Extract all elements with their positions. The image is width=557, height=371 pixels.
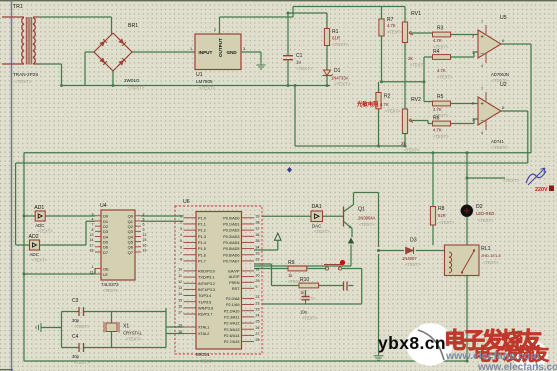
svg-text:AD1: AD1: [34, 205, 44, 211]
svg-text:7: 7: [180, 251, 182, 255]
svg-text:7: 7: [92, 223, 94, 227]
svg-text:11: 11: [90, 271, 94, 275]
svg-text:<TEXT>: <TEXT>: [314, 229, 330, 234]
svg-text:16: 16: [178, 305, 182, 309]
svg-text:27: 27: [256, 332, 260, 336]
svg-text:8: 8: [180, 258, 182, 262]
svg-text:D7: D7: [103, 250, 109, 255]
svg-text:P1.7: P1.7: [198, 260, 206, 264]
svg-text:<TEXT>: <TEXT>: [332, 42, 349, 47]
svg-text:<TEXT>: <TEXT>: [37, 229, 53, 234]
svg-text:3: 3: [472, 118, 474, 122]
svg-text:INT1/P3.3: INT1/P3.3: [198, 288, 215, 292]
svg-text:−: −: [481, 118, 484, 124]
svg-text:15: 15: [143, 238, 147, 242]
svg-text:19: 19: [143, 248, 147, 252]
svg-text:1u: 1u: [296, 60, 301, 65]
svg-text:7: 7: [481, 20, 483, 24]
svg-text:P0.7/AD7: P0.7/AD7: [223, 260, 239, 264]
svg-text:www.elecfans.com: www.elecfans.com: [445, 350, 540, 362]
svg-text:<TEXT>: <TEXT>: [503, 178, 520, 183]
svg-text:P1.1: P1.1: [198, 223, 206, 227]
svg-text:<TEXT>: <TEXT>: [483, 260, 499, 265]
svg-text:P2.6/A14: P2.6/A14: [224, 334, 240, 338]
svg-text:74LS373: 74LS373: [101, 282, 119, 287]
svg-text:P1.4: P1.4: [198, 241, 206, 245]
svg-text:<TEXT>: <TEXT>: [385, 109, 401, 114]
svg-text:36: 36: [256, 233, 260, 237]
svg-text:P2.7/A15: P2.7/A15: [224, 340, 240, 344]
svg-text:P1.0: P1.0: [198, 216, 206, 220]
svg-text:12: 12: [143, 233, 147, 237]
svg-text:<TEXT>: <TEXT>: [74, 324, 90, 329]
svg-text:19: 19: [178, 324, 182, 328]
svg-text:32: 32: [256, 258, 260, 262]
svg-text:22: 22: [256, 301, 260, 305]
svg-text:P0.3/AD3: P0.3/AD3: [223, 235, 239, 239]
svg-text:RV1: RV1: [411, 11, 421, 17]
svg-text:R4: R4: [433, 49, 440, 55]
svg-text:PSEN: PSEN: [229, 281, 240, 285]
svg-text:RL1: RL1: [481, 246, 491, 252]
svg-text:<TEXT>: <TEXT>: [199, 359, 215, 364]
svg-text:RV2: RV2: [411, 97, 421, 103]
svg-text:39: 39: [256, 215, 260, 219]
svg-text:4: 4: [481, 64, 483, 68]
svg-text:<TEXT>: <TEXT>: [103, 288, 119, 293]
svg-text:R5: R5: [437, 94, 444, 100]
svg-text:4: 4: [481, 131, 483, 135]
svg-text:ADC: ADC: [35, 223, 44, 228]
svg-text:38: 38: [256, 221, 260, 225]
svg-text:<TEXT>: <TEXT>: [296, 66, 313, 71]
svg-text:25: 25: [256, 320, 260, 324]
svg-text:TR1: TR1: [13, 4, 23, 10]
svg-text:AD706JN: AD706JN: [491, 72, 509, 77]
svg-text:2: 2: [214, 28, 216, 32]
svg-text:2N3904A: 2N3904A: [358, 216, 376, 221]
svg-text:6: 6: [143, 223, 145, 227]
svg-text:220V: 220V: [535, 187, 548, 193]
svg-text:P2.5/A13: P2.5/A13: [224, 328, 240, 332]
svg-text:<TEXT>: <TEXT>: [439, 220, 455, 225]
svg-text:RST: RST: [232, 287, 240, 291]
svg-text:28: 28: [256, 338, 260, 342]
svg-text:U4: U4: [100, 203, 107, 209]
svg-text:<TEXT>: <TEXT>: [15, 79, 32, 84]
svg-text:<TEXT>: <TEXT>: [410, 63, 426, 68]
svg-text:14: 14: [90, 238, 94, 242]
svg-text:C1: C1: [296, 53, 303, 59]
svg-text:3: 3: [92, 212, 94, 216]
svg-text:5: 5: [180, 239, 182, 243]
svg-text:RD/P3.7: RD/P3.7: [198, 313, 212, 317]
svg-text:R3: R3: [437, 26, 444, 32]
svg-text:U6: U6: [183, 199, 190, 205]
svg-text:61R: 61R: [332, 36, 340, 41]
svg-text:WR/P3.6: WR/P3.6: [198, 306, 213, 310]
svg-text:D3: D3: [410, 238, 417, 244]
svg-text:4.7K: 4.7K: [433, 128, 442, 133]
svg-text:3: 3: [180, 227, 182, 231]
svg-text:C4: C4: [72, 334, 79, 340]
svg-text:37: 37: [256, 227, 260, 231]
svg-text:2W01G: 2W01G: [124, 78, 140, 83]
svg-text:17: 17: [90, 243, 94, 247]
svg-text:T1/P3.5: T1/P3.5: [198, 300, 211, 304]
svg-text:9: 9: [256, 285, 258, 289]
svg-text:12: 12: [178, 280, 182, 284]
svg-text:3: 3: [472, 51, 474, 55]
svg-text:INT0/P3.2: INT0/P3.2: [198, 282, 215, 286]
svg-text:<TEXT>: <TEXT>: [126, 337, 142, 342]
svg-text:Q1: Q1: [358, 207, 365, 213]
svg-text:<TEXT>: <TEXT>: [32, 258, 48, 263]
svg-text:D1: D1: [334, 68, 341, 74]
svg-text:18: 18: [178, 330, 182, 334]
svg-text:13: 13: [178, 286, 182, 290]
svg-text:<TEXT>: <TEXT>: [387, 30, 403, 35]
svg-text:R10: R10: [300, 277, 309, 283]
svg-text:R9: R9: [288, 260, 295, 266]
svg-text:4: 4: [180, 233, 182, 237]
svg-text:OUTPUT: OUTPUT: [218, 38, 223, 57]
svg-text:15: 15: [178, 298, 182, 302]
svg-text:5: 5: [143, 217, 145, 221]
svg-text:<TEXT>: <TEXT>: [334, 82, 351, 87]
svg-text:P0.6/AD6: P0.6/AD6: [223, 253, 239, 257]
svg-text:+: +: [481, 35, 484, 41]
svg-text:16: 16: [143, 243, 147, 247]
svg-text:<TEXT>: <TEXT>: [302, 316, 318, 321]
svg-text:U2: U2: [500, 82, 507, 88]
svg-text:P0.5/AD5: P0.5/AD5: [223, 247, 239, 251]
svg-text:4: 4: [92, 217, 94, 221]
svg-text:10u: 10u: [300, 310, 308, 315]
svg-text:ybx8.cn: ybx8.cn: [378, 333, 446, 353]
svg-text:OE: OE: [103, 266, 109, 271]
svg-text:4.7K: 4.7K: [387, 23, 396, 28]
svg-text:1N4733A: 1N4733A: [331, 76, 349, 81]
svg-text:21: 21: [256, 295, 260, 299]
svg-text:EA/VP: EA/VP: [228, 270, 240, 274]
svg-text:2k: 2k: [408, 56, 413, 61]
svg-text:P2.0/A8: P2.0/A8: [226, 297, 240, 301]
svg-text:ADC: ADC: [30, 252, 39, 257]
svg-text:11: 11: [178, 274, 182, 278]
svg-text:XTAL2: XTAL2: [198, 332, 209, 336]
svg-text:TXD/P3.1: TXD/P3.1: [198, 276, 214, 280]
svg-text:<TEXT>: <TEXT>: [128, 85, 145, 90]
svg-text:18: 18: [90, 248, 94, 252]
svg-text:1N4007: 1N4007: [402, 256, 417, 261]
svg-text:1: 1: [190, 47, 192, 51]
svg-text:<TEXT>: <TEXT>: [478, 218, 494, 223]
svg-text:24: 24: [256, 314, 260, 318]
svg-text:<TEXT>: <TEXT>: [437, 75, 453, 80]
svg-text:U1: U1: [196, 72, 203, 78]
svg-text:CRYSTAL: CRYSTAL: [123, 331, 143, 336]
svg-text:30: 30: [256, 273, 260, 277]
svg-text:LED-RED: LED-RED: [476, 211, 494, 216]
svg-text:<TEXT>: <TEXT>: [405, 262, 421, 267]
svg-text:30p: 30p: [72, 354, 80, 359]
svg-text:30p: 30p: [72, 318, 80, 323]
svg-text:2: 2: [472, 102, 474, 106]
svg-text:4.7K: 4.7K: [380, 102, 389, 107]
svg-text:P1.3: P1.3: [198, 235, 206, 239]
svg-text:AD741: AD741: [491, 139, 504, 144]
svg-text:−: −: [481, 51, 484, 57]
svg-text:BR1: BR1: [128, 23, 138, 29]
svg-text:P0.2/AD2: P0.2/AD2: [223, 229, 239, 233]
svg-text:P1.5: P1.5: [198, 247, 206, 251]
svg-text:P1.2: P1.2: [198, 229, 206, 233]
svg-text:1: 1: [180, 215, 182, 219]
svg-text:P2.3/A11: P2.3/A11: [224, 315, 239, 319]
svg-text:C3: C3: [72, 298, 79, 304]
svg-text:LM7805: LM7805: [196, 79, 213, 84]
svg-text:4.7K: 4.7K: [433, 38, 442, 43]
svg-text:31: 31: [256, 268, 260, 272]
svg-text:光敏电阻: 光敏电阻: [356, 100, 379, 108]
svg-text:LE: LE: [103, 272, 108, 277]
svg-text:2: 2: [143, 212, 145, 216]
svg-text:8: 8: [92, 228, 94, 232]
svg-text:+: +: [481, 102, 484, 108]
svg-text:AD2: AD2: [29, 234, 39, 240]
svg-text:<TEXT>: <TEXT>: [433, 134, 449, 139]
svg-text:TRAN-2P2S: TRAN-2P2S: [13, 72, 38, 77]
svg-text:1: 1: [92, 265, 94, 269]
svg-text:XTAL1: XTAL1: [198, 326, 209, 330]
svg-text:P0.4/AD4: P0.4/AD4: [223, 241, 239, 245]
svg-text:DAC: DAC: [312, 224, 321, 229]
svg-text:P2.2/A10: P2.2/A10: [224, 309, 240, 313]
svg-text:6: 6: [502, 39, 504, 43]
svg-text:X1: X1: [123, 324, 129, 330]
svg-text:17: 17: [178, 311, 182, 315]
svg-text:R2: R2: [384, 94, 391, 100]
svg-text:3: 3: [243, 47, 245, 51]
svg-text:6: 6: [180, 245, 182, 249]
svg-text:2: 2: [180, 221, 182, 225]
svg-text:P1.6: P1.6: [198, 253, 206, 257]
svg-text:34: 34: [256, 245, 260, 249]
svg-text:6: 6: [502, 106, 504, 110]
svg-text:26: 26: [256, 326, 260, 330]
svg-text:P2.4/A12: P2.4/A12: [224, 322, 240, 326]
svg-text:D2: D2: [476, 204, 483, 210]
svg-text:29: 29: [256, 279, 260, 283]
svg-text:<TEXT>: <TEXT>: [199, 86, 216, 91]
svg-text:<TEXT>: <TEXT>: [359, 222, 375, 227]
svg-text:T0/P3.4: T0/P3.4: [198, 294, 211, 298]
svg-text:INPUT: INPUT: [199, 50, 213, 55]
svg-text:61R: 61R: [438, 213, 446, 218]
svg-text:13: 13: [90, 233, 94, 237]
svg-text:P2.1/A9: P2.1/A9: [226, 303, 240, 307]
svg-text:DA1: DA1: [312, 204, 322, 210]
svg-text:10: 10: [178, 268, 182, 272]
svg-text:33: 33: [256, 251, 260, 255]
svg-text:14: 14: [178, 292, 182, 296]
svg-text:9: 9: [143, 228, 145, 232]
svg-text:ALE/P: ALE/P: [229, 275, 240, 279]
svg-text:2: 2: [472, 35, 474, 39]
svg-text:<TEXT>: <TEXT>: [74, 360, 90, 365]
svg-text:7: 7: [481, 87, 483, 91]
svg-text:R8: R8: [438, 206, 445, 212]
svg-text:P0.1/AD1: P0.1/AD1: [223, 223, 239, 227]
svg-text:Q7: Q7: [128, 250, 134, 255]
svg-text:R1: R1: [332, 29, 339, 35]
svg-text:JHD-1E1-5: JHD-1E1-5: [481, 253, 502, 258]
svg-text:GND: GND: [227, 50, 238, 55]
svg-text:4.7K: 4.7K: [437, 68, 446, 73]
svg-text:R6: R6: [433, 116, 440, 122]
svg-text:23: 23: [256, 307, 260, 311]
svg-text:<TEXT>: <TEXT>: [492, 145, 508, 150]
svg-text:35: 35: [256, 239, 260, 243]
svg-text:4.7K: 4.7K: [433, 107, 442, 112]
svg-text:80C51: 80C51: [196, 352, 210, 357]
svg-text:RXD/P3.0: RXD/P3.0: [198, 270, 215, 274]
svg-text:www.elecfans.com: www.elecfans.com: [477, 362, 557, 371]
svg-text:<TEXT>: <TEXT>: [404, 148, 420, 153]
svg-text:U5: U5: [500, 15, 507, 21]
svg-text:P0.0/AD0: P0.0/AD0: [223, 216, 239, 220]
